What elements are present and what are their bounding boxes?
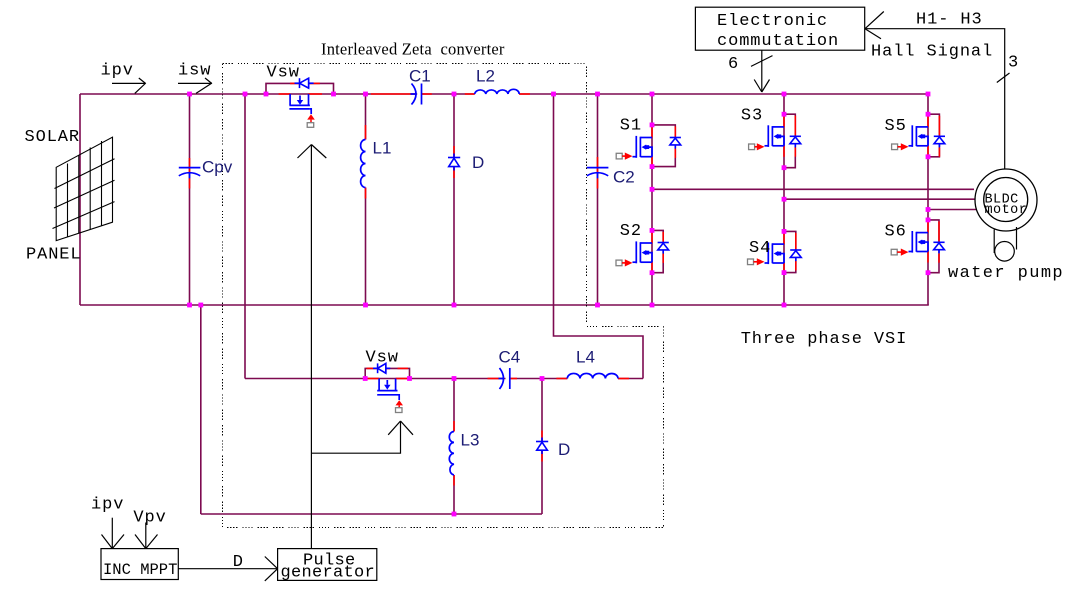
wire phase2 input trunk x245 xyxy=(244,94,246,379)
svg-text:Three phase VSI: Three phase VSI xyxy=(741,330,908,349)
INC MPPT box xyxy=(101,549,178,580)
junction (365.5,305.0) xyxy=(363,303,368,308)
junction (597.5,305.0) xyxy=(595,303,600,308)
inductor L2 xyxy=(475,89,520,94)
junction (928.0,219.9) xyxy=(926,218,931,223)
capacitor Cpv xyxy=(179,168,201,179)
junction (784.0,114.2) xyxy=(782,112,787,117)
diode of Vsw1 loop xyxy=(295,78,314,88)
svg-text:Hall Signal: Hall Signal xyxy=(871,43,993,62)
svg-text:Vpv: Vpv xyxy=(133,509,166,528)
Vsw2 gate terminal square xyxy=(396,408,403,413)
svg-text:3: 3 xyxy=(1008,53,1019,72)
transistor Vsw2 channel arrow xyxy=(384,385,390,390)
svg-text:D: D xyxy=(558,440,570,459)
wire C2 rail xyxy=(597,94,599,305)
junction (553.5,94.0) xyxy=(551,92,556,97)
svg-text:C4: C4 xyxy=(499,348,521,367)
diode D2 xyxy=(536,438,548,455)
inductor L1 xyxy=(361,140,366,188)
svg-text:INC MPPT: INC MPPT xyxy=(103,561,177,579)
red pin stubs lower section xyxy=(367,368,629,485)
junction (597.5,94.0) xyxy=(595,92,600,97)
svg-text:Interleaved Zeta converter: Interleaved Zeta converter xyxy=(321,40,505,59)
svg-text:S2: S2 xyxy=(620,222,642,241)
svg-text:L3: L3 xyxy=(461,431,480,450)
wire Vsw2 antiparallel loop xyxy=(365,368,409,378)
junction (928.0,209.5) xyxy=(926,207,931,212)
wire Vsw1 antiparallel loop xyxy=(266,83,334,94)
svg-text:SOLAR: SOLAR xyxy=(25,128,81,147)
svg-text:Vsw: Vsw xyxy=(366,349,399,368)
red pin stubs top section xyxy=(190,83,598,198)
svg-text:S3: S3 xyxy=(741,106,763,125)
inductor L4 xyxy=(567,373,618,378)
junction (652.0,305.0) xyxy=(650,303,655,308)
svg-text:ipv: ipv xyxy=(91,496,124,515)
svg-text:Vsw: Vsw xyxy=(267,64,300,83)
junction (454.0,378.5) xyxy=(452,376,457,381)
svg-text:6: 6 xyxy=(728,55,739,74)
svg-text:C1: C1 xyxy=(409,67,431,86)
Vsw1 gate arrow (red) xyxy=(307,114,315,119)
gate drive trunk from pulse generator with up arrow xyxy=(298,145,327,549)
svg-text:D: D xyxy=(472,153,484,172)
wire D1 branch xyxy=(453,94,455,305)
junction (784.0,231.4) xyxy=(782,229,787,234)
solar panel xyxy=(53,137,115,240)
capacitor C4 xyxy=(499,368,510,389)
svg-text:S6: S6 xyxy=(885,223,907,242)
junction (365.5,94.0) xyxy=(363,92,368,97)
wire top bus xyxy=(80,93,417,95)
VSI leg 2 (S3/S4) xyxy=(783,94,785,305)
junction (652.0,272.7) xyxy=(650,270,655,275)
junction (652.0,124.9) xyxy=(650,123,655,128)
arrow INC MPPT to pulse generator xyxy=(178,557,277,581)
junction (784.0,305.0) xyxy=(782,303,787,308)
wire lower phase bottom bus xyxy=(201,513,542,515)
junction (784.0,167.7) xyxy=(782,165,787,170)
svg-text:PANEL: PANEL xyxy=(26,246,82,265)
junction (365.2,378.5) xyxy=(363,376,368,381)
isw current arrow xyxy=(178,78,212,93)
wire output node down and to lower phase output xyxy=(554,94,644,379)
transistor Vsw2 (lower Zeta switch) xyxy=(377,379,399,401)
junction (652.0,230.4) xyxy=(650,228,655,233)
VSI leg 1 (S1/S2) xyxy=(651,94,653,305)
capacitor C2 xyxy=(587,168,609,179)
wire bottom bus xyxy=(80,304,929,306)
junction (784.0,272.6) xyxy=(782,270,787,275)
svg-text:ipv: ipv xyxy=(101,62,134,81)
junction (409.5,378.5) xyxy=(407,376,412,381)
BLDC motor xyxy=(975,169,1037,231)
svg-text:L4: L4 xyxy=(576,348,595,367)
six-line gate bus from commutation box with arrow xyxy=(751,50,773,92)
water pump xyxy=(994,227,1016,261)
junction (266.0,94.0) xyxy=(264,92,269,97)
Vsw2 gate arrow (red) xyxy=(396,400,404,405)
junction (333.5,94.0) xyxy=(331,92,336,97)
transistor Vsw1 channel arrow xyxy=(297,100,303,105)
svg-text:L1: L1 xyxy=(373,139,392,158)
Vpv input arrow to MPPT xyxy=(135,523,158,549)
svg-text:H1- H3: H1- H3 xyxy=(916,10,983,29)
phase wire B to motor xyxy=(784,198,975,200)
junction (928.0,94.0) xyxy=(926,92,931,97)
junction (784.0,94.0) xyxy=(782,92,787,97)
pulse generator box xyxy=(278,549,377,581)
capacitor C1 xyxy=(411,84,422,105)
Vsw1 gate terminal square xyxy=(307,123,314,128)
svg-text:D: D xyxy=(233,553,244,572)
junction (784.0,199.2) xyxy=(782,197,787,202)
wire Cpv branch xyxy=(189,94,191,305)
inductor L3 xyxy=(449,432,454,476)
diode D1 xyxy=(448,154,460,171)
junction (454.0,514.0) xyxy=(452,512,457,517)
svg-text:C2: C2 xyxy=(613,168,635,187)
ipv current arrow xyxy=(112,78,146,93)
junction (189.5,305.0) xyxy=(187,303,192,308)
wire lower phase top bus xyxy=(245,378,506,380)
junction (200.8,305.0) xyxy=(198,303,203,308)
svg-text:water pump: water pump xyxy=(948,264,1064,283)
junction (652.0,189.3) xyxy=(650,187,655,192)
wire L3 branch xyxy=(453,379,455,432)
junction (245.0,94.0) xyxy=(243,92,248,97)
junction (652.0,94.0) xyxy=(650,92,655,97)
junction (928.0,114.2) xyxy=(926,112,931,117)
svg-text:generator: generator xyxy=(281,564,376,583)
transistor S4 xyxy=(748,231,802,272)
svg-text:Electronic: Electronic xyxy=(717,12,828,31)
svg-text:motor: motor xyxy=(985,203,1028,218)
transistor Vsw1 (top Zeta switch) xyxy=(289,94,311,114)
wire lower phase return trunk xyxy=(200,305,202,514)
svg-text:S4: S4 xyxy=(749,239,771,258)
electronic commutation box xyxy=(695,7,864,50)
svg-text:commutation: commutation xyxy=(717,32,839,51)
svg-text:S1: S1 xyxy=(620,117,642,136)
transistor S2 xyxy=(616,230,669,272)
gate drive branch to Vsw2 with up arrow xyxy=(311,421,413,453)
junction (928.0,272.7) xyxy=(926,270,931,275)
junction (454.0,94.0) xyxy=(452,92,457,97)
transistor S3 xyxy=(749,114,801,168)
junction (928.0,156.8) xyxy=(926,154,931,159)
dashed converter boundary xyxy=(223,64,664,528)
svg-text:Cpv: Cpv xyxy=(202,158,233,177)
junction (189.5,94.0) xyxy=(187,92,192,97)
ipv input arrow to MPPT xyxy=(102,518,125,549)
svg-text:L2: L2 xyxy=(476,67,495,86)
phase wire A to motor xyxy=(652,188,974,190)
diode of Vsw2 loop xyxy=(373,363,390,373)
wire D2 branch xyxy=(541,379,543,515)
junction (652.0,166.6) xyxy=(650,164,655,169)
transistor S1 xyxy=(616,125,681,167)
junction (454.0,305.0) xyxy=(452,303,457,308)
svg-text:isw: isw xyxy=(178,62,211,81)
junction (542.0,378.5) xyxy=(540,376,545,381)
VSI right rail (S5/S6) xyxy=(927,94,929,305)
phase wire C to motor xyxy=(928,209,977,211)
transistor S6 xyxy=(891,220,944,273)
hall signal wire H1-H3 with arrow into box xyxy=(865,12,1010,170)
wire left edge xyxy=(79,94,81,305)
transistor S5 xyxy=(892,114,945,157)
wire L1 branch xyxy=(365,94,367,140)
svg-text:S5: S5 xyxy=(885,117,907,136)
